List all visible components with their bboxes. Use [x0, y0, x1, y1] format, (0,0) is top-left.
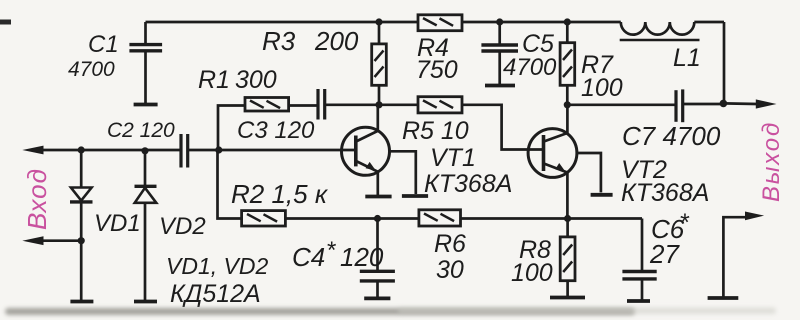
svg-text:L1: L1 — [673, 44, 701, 72]
svg-text:R6: R6 — [434, 230, 466, 258]
wire R2 branch — [218, 150, 242, 219]
diode VD2 — [134, 151, 157, 302]
wire to R1 — [218, 106, 245, 151]
input arrow top — [22, 146, 43, 155]
capacitor C4 — [360, 219, 395, 299]
node output / L1 — [720, 100, 728, 108]
wire input line — [30, 149, 181, 152]
svg-text:Вход: Вход — [22, 168, 52, 230]
transistor VT2 — [528, 105, 577, 219]
resistor R3 — [372, 22, 387, 105]
output ground terminal — [708, 217, 746, 298]
resistor R6 — [419, 210, 642, 226]
node top rail / C5 — [496, 18, 503, 25]
node input / VD1 — [78, 146, 85, 153]
wire top rail left section — [146, 21, 419, 24]
VT1 emitter ground — [365, 195, 391, 199]
node emitter rail / C4 — [374, 215, 381, 222]
svg-text:C7 4700: C7 4700 — [622, 121, 721, 151]
resistor R2 — [242, 211, 419, 226]
svg-text:Выход: Выход — [758, 121, 785, 202]
inductor L1 — [620, 22, 724, 103]
capacitor C7 — [567, 89, 723, 122]
node top rail / R7 — [564, 18, 571, 25]
svg-text:*: * — [326, 237, 336, 264]
svg-text:C4: C4 — [292, 242, 325, 272]
capacitor C1 — [129, 22, 162, 105]
scan artifact: bottom band — [5, 308, 635, 315]
svg-text:R1: R1 — [198, 66, 230, 94]
resistor R8 — [550, 219, 585, 298]
svg-text:VD2: VD2 — [159, 213, 206, 240]
diode VD1 — [70, 150, 93, 302]
svg-text:100: 100 — [581, 74, 623, 102]
resistor R1 — [245, 98, 318, 112]
node input / VD2 — [141, 147, 148, 154]
svg-text:300: 300 — [235, 66, 277, 94]
VT2 emitter arrow — [555, 163, 565, 172]
VT1 emitter arrow — [366, 162, 376, 171]
capacitor C5 — [481, 22, 518, 86]
svg-text:4700: 4700 — [503, 54, 557, 81]
VT1 case wire — [389, 151, 416, 194]
VT2 case ground — [591, 193, 613, 197]
input arrow bottom — [22, 236, 81, 245]
svg-text:КТ368А: КТ368А — [621, 179, 709, 207]
node VT1 collector — [375, 101, 382, 108]
capacitor C3 — [318, 89, 379, 120]
svg-text:C2 120: C2 120 — [107, 119, 175, 142]
VT2 case wire — [577, 153, 601, 192]
svg-text:VT1: VT1 — [430, 144, 476, 172]
VT1 case ground — [402, 194, 428, 198]
svg-text:VD1: VD1 — [94, 210, 141, 237]
wire top rail middle section — [462, 21, 621, 24]
resistor R7 — [560, 22, 575, 105]
node VD1 / input ground arrow — [78, 237, 85, 244]
svg-text:КД512А: КД512А — [170, 280, 261, 308]
transistor VT1 — [342, 105, 390, 196]
svg-text:R3: R3 — [262, 26, 296, 56]
node VT1 base / R1 / R2 — [215, 146, 222, 153]
output arrow bottom — [745, 212, 764, 221]
svg-text:КТ368А: КТ368А — [424, 170, 512, 198]
scan artifact: left edge dash — [0, 20, 11, 25]
svg-text:30: 30 — [436, 256, 464, 284]
svg-text:27: 27 — [649, 239, 680, 269]
node VT2 emitter rail / R8 — [564, 215, 571, 222]
capacitor C2 — [181, 134, 355, 168]
svg-text:C3 120: C3 120 — [237, 117, 315, 144]
svg-text:C1: C1 — [88, 31, 119, 58]
resistor R5 — [379, 97, 543, 150]
capacitor C6 — [622, 219, 656, 302]
node top rail / R3 — [375, 18, 382, 25]
svg-text:100: 100 — [511, 259, 553, 287]
svg-text:4700: 4700 — [68, 58, 115, 81]
svg-text:200: 200 — [314, 26, 359, 56]
svg-text:120: 120 — [340, 242, 384, 272]
svg-text:R5 10: R5 10 — [402, 117, 469, 145]
output arrow top — [723, 99, 776, 108]
svg-text:750: 750 — [416, 56, 458, 84]
svg-text:R2 1,5 к: R2 1,5 к — [231, 179, 329, 209]
svg-text:VD1, VD2: VD1, VD2 — [166, 253, 268, 279]
node VT2 collector — [564, 101, 571, 108]
resistor R4 — [418, 15, 462, 31]
svg-text:*: * — [679, 209, 690, 237]
